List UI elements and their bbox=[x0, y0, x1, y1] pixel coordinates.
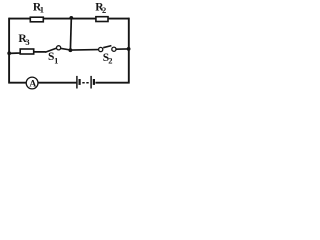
svg-text:2: 2 bbox=[102, 5, 106, 15]
switch S1 terminal circle bbox=[57, 46, 61, 50]
resistor R3 bbox=[20, 49, 34, 54]
wire S2 to right border bbox=[116, 48, 129, 50]
wire bottom right segment bbox=[95, 82, 129, 84]
ammeter A bbox=[26, 77, 38, 89]
junction dot left border / R3 branch bbox=[7, 51, 11, 55]
svg-text:2: 2 bbox=[108, 56, 112, 66]
junction dot top wire / middle branch bbox=[69, 16, 73, 20]
wire bottom left segment bbox=[9, 82, 77, 84]
wire middle vertical from top junction bbox=[69, 19, 72, 51]
wire junction to S2 bbox=[70, 49, 98, 52]
junction dot right border / middle wire bbox=[127, 47, 131, 51]
battery cell 1 short plate bbox=[78, 79, 80, 85]
wire left border bbox=[8, 18, 10, 84]
battery dashed link bbox=[82, 82, 89, 84]
battery cell 2 short plate bbox=[93, 79, 95, 85]
switch S2 left terminal circle bbox=[99, 47, 103, 51]
switch S2 right terminal circle bbox=[112, 47, 116, 51]
wire right border bbox=[128, 18, 130, 84]
wire top bbox=[9, 18, 130, 20]
svg-text:A: A bbox=[29, 80, 36, 90]
switch S2 blade bbox=[103, 46, 111, 48]
wire S1 to junction bbox=[61, 48, 70, 50]
svg-text:3: 3 bbox=[25, 37, 29, 47]
junction dot middle wire / vertical branch bbox=[69, 48, 73, 52]
wire middle-left segment bbox=[9, 52, 45, 54]
svg-text:1: 1 bbox=[40, 4, 44, 14]
background bbox=[0, 0, 143, 96]
switch S1 blade bbox=[45, 48, 56, 52]
battery cell 1 long plate bbox=[76, 76, 78, 89]
resistor R1 bbox=[30, 17, 43, 22]
resistor R2 bbox=[96, 17, 108, 22]
battery cell 2 long plate bbox=[90, 76, 92, 89]
svg-text:1: 1 bbox=[54, 56, 58, 66]
